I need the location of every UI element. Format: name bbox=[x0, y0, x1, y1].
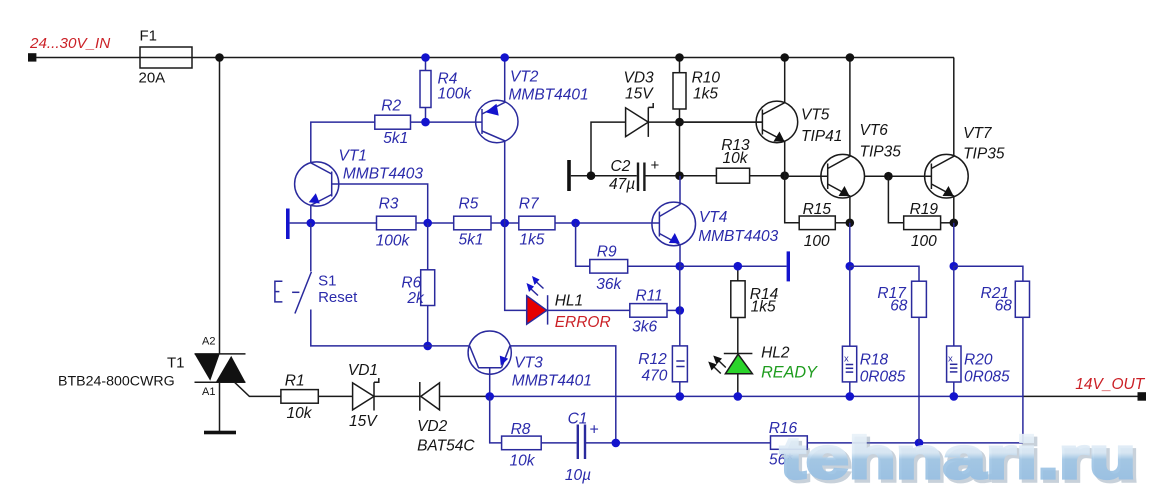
resistor R15 bbox=[785, 176, 850, 230]
node VD3/R10/VT5 bbox=[675, 118, 684, 127]
svg-text:x: x bbox=[948, 353, 953, 364]
svg-text:VD1: VD1 bbox=[348, 362, 378, 379]
node R21/R20 top bbox=[950, 262, 959, 271]
transistor VT1 bbox=[295, 162, 428, 223]
node C1/VT3 collector drop bbox=[612, 439, 621, 448]
resistor R19 bbox=[888, 176, 953, 229]
wire R5 to R7 bbox=[491, 222, 519, 224]
svg-text:100k: 100k bbox=[376, 233, 411, 250]
svg-text:VT3: VT3 bbox=[514, 355, 543, 372]
svg-text:VT4: VT4 bbox=[699, 209, 728, 226]
wire VD1 to VD2 bbox=[374, 395, 420, 397]
resistor R5 bbox=[454, 216, 491, 230]
wire VT6 emitter chain down bbox=[849, 223, 851, 266]
svg-text:R19: R19 bbox=[910, 201, 939, 218]
resistor R13 bbox=[716, 168, 749, 183]
capacitor C1 bbox=[578, 425, 771, 460]
svg-text:5k1: 5k1 bbox=[383, 130, 408, 147]
svg-text:BAT54C: BAT54C bbox=[417, 438, 475, 455]
node R12 bottom bbox=[676, 392, 685, 401]
terminal bar at C2 left bbox=[567, 160, 571, 191]
wire VT5 base from R10 node bbox=[680, 121, 763, 123]
wire top supply rail bbox=[36, 57, 954, 59]
transistor VT4 bbox=[652, 176, 696, 267]
wire R13 to VT5 emitter node bbox=[750, 175, 785, 177]
svg-text:R8: R8 bbox=[511, 421, 531, 438]
svg-text:R11: R11 bbox=[636, 288, 663, 305]
svg-text:R18: R18 bbox=[860, 352, 889, 369]
node R17/R18 top bbox=[846, 262, 855, 271]
svg-text:VD2: VD2 bbox=[417, 418, 448, 435]
node R6 bottom bbox=[423, 342, 432, 351]
svg-text:14V_OUT: 14V_OUT bbox=[1075, 376, 1145, 393]
wire VT6 base bbox=[785, 175, 828, 177]
svg-text:10µ: 10µ bbox=[565, 467, 591, 484]
svg-text:HL1: HL1 bbox=[555, 293, 583, 310]
svg-text:MMBT4403: MMBT4403 bbox=[343, 166, 423, 183]
svg-text:ERROR: ERROR bbox=[555, 314, 611, 331]
wire output black segment bbox=[1023, 395, 1138, 397]
svg-text:VT2: VT2 bbox=[510, 69, 539, 86]
svg-text:2k: 2k bbox=[406, 290, 425, 307]
node R18 bottom bbox=[846, 392, 855, 401]
resistor R6 bbox=[421, 223, 435, 346]
resistor R9 bbox=[576, 223, 680, 273]
resistor R21 bbox=[954, 266, 1030, 443]
node R20 bottom bbox=[950, 392, 959, 401]
triac T1 bbox=[195, 354, 246, 382]
diode VD1 bbox=[353, 378, 379, 411]
svg-text:TIP35: TIP35 bbox=[860, 144, 902, 161]
svg-text:R15: R15 bbox=[803, 201, 832, 218]
svg-text:10k: 10k bbox=[287, 405, 313, 422]
wire VD2 to node bbox=[440, 395, 488, 397]
terminal bar right of R14 bbox=[787, 251, 790, 281]
svg-text:VT5: VT5 bbox=[801, 107, 830, 124]
svg-text:T1: T1 bbox=[167, 355, 185, 372]
wire bar to C2 bbox=[571, 175, 637, 177]
resistor R2 bbox=[311, 115, 482, 163]
resistor R11 bbox=[630, 304, 667, 318]
watermark tehnari.ru bbox=[780, 426, 1139, 494]
node 24...30V_IN input terminal bbox=[28, 53, 36, 61]
transistor VT3 bbox=[428, 331, 616, 443]
svg-text:Reset: Reset bbox=[318, 289, 358, 306]
resistor R12 bbox=[672, 266, 687, 396]
svg-text:VT6: VT6 bbox=[860, 122, 889, 139]
svg-text:MMBT4401: MMBT4401 bbox=[509, 87, 589, 104]
switch S1 bbox=[275, 223, 428, 346]
svg-text:VT1: VT1 bbox=[339, 148, 367, 165]
svg-text:BTB24-800CWRG: BTB24-800CWRG bbox=[58, 374, 175, 390]
svg-text:68: 68 bbox=[995, 298, 1013, 315]
wire C2 to R13 bbox=[644, 175, 716, 177]
LED HL2 bbox=[708, 354, 752, 397]
svg-text:S1: S1 bbox=[318, 273, 336, 290]
svg-text:+: + bbox=[590, 422, 599, 439]
svg-text:VT7: VT7 bbox=[963, 125, 993, 142]
node rail/R4 bbox=[421, 53, 430, 62]
node 14V_OUT terminal bbox=[1138, 392, 1147, 401]
wire VT7 emitter chain down bbox=[953, 223, 955, 266]
transistor VT7 bbox=[925, 58, 969, 223]
node R7/R9 bbox=[571, 219, 580, 228]
svg-text:A2: A2 bbox=[202, 336, 215, 348]
node R5/R7/VT2 collector bbox=[500, 219, 509, 228]
svg-text:tehnari.ru: tehnari.ru bbox=[780, 426, 1136, 491]
svg-text:15V: 15V bbox=[349, 413, 378, 430]
resistor R10 bbox=[673, 58, 686, 176]
svg-text:R7: R7 bbox=[519, 196, 540, 213]
node R13/VT5e/VT6b bbox=[780, 171, 789, 180]
svg-text:F1: F1 bbox=[140, 28, 158, 45]
wire VT2 emitter to HL1 bbox=[505, 223, 527, 310]
svg-text:100: 100 bbox=[911, 233, 937, 250]
svg-text:HL2: HL2 bbox=[761, 345, 790, 362]
node R15/VT6 emitter bbox=[846, 219, 855, 228]
transistor VT2 bbox=[476, 58, 518, 224]
node VD2/VT3 base/R8 bbox=[485, 392, 494, 401]
wire VD3 to VT5 base bbox=[648, 121, 762, 123]
wire R16 to right bbox=[807, 442, 1023, 444]
resistor R1 bbox=[281, 390, 318, 404]
wire R7 to VT4 base bbox=[555, 222, 660, 224]
svg-text:A1: A1 bbox=[202, 386, 215, 398]
node rail/VT5 collector bbox=[780, 53, 789, 62]
node rail/R10 bbox=[675, 53, 684, 62]
resistor R4 bbox=[420, 58, 431, 123]
capacitor C2 bbox=[638, 163, 644, 192]
svg-text:68: 68 bbox=[890, 298, 908, 315]
node R2/R4/VT2 base bbox=[421, 118, 430, 127]
svg-text:MMBT4401: MMBT4401 bbox=[512, 373, 592, 390]
node R11/R12 bbox=[676, 306, 685, 315]
node R3/R5/R6/VT1 base bbox=[423, 219, 432, 228]
svg-text:100k: 100k bbox=[438, 85, 473, 102]
svg-text:3k6: 3k6 bbox=[632, 319, 657, 336]
svg-text:C2: C2 bbox=[611, 158, 631, 175]
svg-text:C1: C1 bbox=[568, 411, 588, 428]
wire bar to R3 bbox=[290, 222, 377, 224]
node rail/VT2 bbox=[500, 53, 509, 62]
resistor R8 bbox=[490, 396, 577, 449]
node rail/VT6 collector bbox=[846, 53, 855, 62]
node R9/VT4 collector bbox=[676, 262, 685, 271]
transistor VT6 bbox=[821, 58, 865, 223]
wire T1 to ground bbox=[219, 382, 221, 431]
resistor R7 bbox=[519, 216, 555, 230]
node R19/VT7 emitter bbox=[950, 219, 959, 228]
svg-text:R1: R1 bbox=[285, 373, 305, 390]
node R14 top bbox=[734, 262, 743, 271]
wire VT6 to VT7 base bbox=[865, 175, 932, 177]
svg-text:VD3: VD3 bbox=[624, 70, 655, 87]
resistor R17 bbox=[850, 266, 927, 443]
svg-text:MMBT4403: MMBT4403 bbox=[698, 228, 778, 245]
svg-text:R9: R9 bbox=[597, 244, 617, 261]
resistor R14 bbox=[731, 266, 745, 353]
svg-text:TIP35: TIP35 bbox=[963, 146, 1005, 163]
svg-text:0R085: 0R085 bbox=[860, 369, 906, 386]
svg-text:5k1: 5k1 bbox=[459, 232, 484, 249]
wire output row blue bbox=[487, 395, 1023, 397]
svg-text:15V: 15V bbox=[625, 86, 654, 103]
node VT7 base / R19 bbox=[884, 172, 893, 181]
resistor R18 bbox=[842, 266, 856, 396]
wire R1 to VD1 bbox=[318, 395, 352, 397]
svg-text:1k5: 1k5 bbox=[519, 232, 544, 249]
svg-text:R5: R5 bbox=[459, 196, 479, 213]
svg-text:36k: 36k bbox=[596, 276, 622, 293]
LED HL1 bbox=[527, 276, 548, 325]
svg-text:10k: 10k bbox=[723, 150, 749, 167]
node VD3 anode / C2 bbox=[587, 171, 596, 180]
svg-text:470: 470 bbox=[642, 368, 668, 385]
svg-text:47µ: 47µ bbox=[609, 176, 635, 193]
fuse F1 bbox=[140, 47, 192, 68]
wire HL1 to R11 bbox=[548, 309, 630, 311]
zener VD3 bbox=[591, 103, 653, 176]
node R10/C2/R13 bbox=[675, 171, 684, 180]
svg-text:R6: R6 bbox=[401, 275, 421, 292]
svg-text:24...30V_IN: 24...30V_IN bbox=[29, 35, 110, 52]
node VT1 emitter / S1 bbox=[307, 219, 316, 228]
terminal bar at VT1 emitter row bbox=[286, 209, 290, 240]
svg-text:x: x bbox=[844, 354, 849, 365]
svg-text:R12: R12 bbox=[638, 351, 667, 368]
svg-text:R20: R20 bbox=[964, 352, 993, 369]
node R17 bottom bbox=[915, 439, 924, 448]
diode VD2 bbox=[420, 382, 440, 411]
svg-text:R2: R2 bbox=[381, 98, 401, 115]
svg-text:0R085: 0R085 bbox=[964, 369, 1010, 386]
svg-text:1k5: 1k5 bbox=[693, 86, 718, 103]
svg-text:100: 100 bbox=[804, 233, 830, 250]
svg-text:R3: R3 bbox=[379, 196, 399, 213]
resistor R16 bbox=[771, 436, 808, 449]
wire R3 to R5 bbox=[416, 222, 454, 224]
svg-text:TIP41: TIP41 bbox=[801, 128, 842, 145]
wire T1 branch vertical bbox=[219, 58, 221, 354]
node rail/T1 junction bbox=[215, 53, 224, 62]
svg-text:20A: 20A bbox=[139, 70, 166, 87]
ground bbox=[204, 431, 236, 435]
wire T1 gate to R1 bbox=[235, 382, 281, 396]
wire node row to R14 and bar bbox=[680, 265, 787, 267]
svg-text:1k5: 1k5 bbox=[751, 299, 776, 316]
svg-text:+: + bbox=[651, 157, 660, 174]
svg-text:R10: R10 bbox=[692, 70, 721, 87]
transistor VT5 bbox=[756, 58, 798, 176]
resistor R20 bbox=[947, 266, 961, 396]
svg-text:READY: READY bbox=[761, 364, 818, 382]
node HL2 bottom bbox=[734, 392, 743, 401]
wire R11 to VT4 collector line bbox=[667, 309, 680, 311]
svg-text:10k: 10k bbox=[510, 453, 536, 470]
resistor R3 bbox=[377, 216, 417, 230]
